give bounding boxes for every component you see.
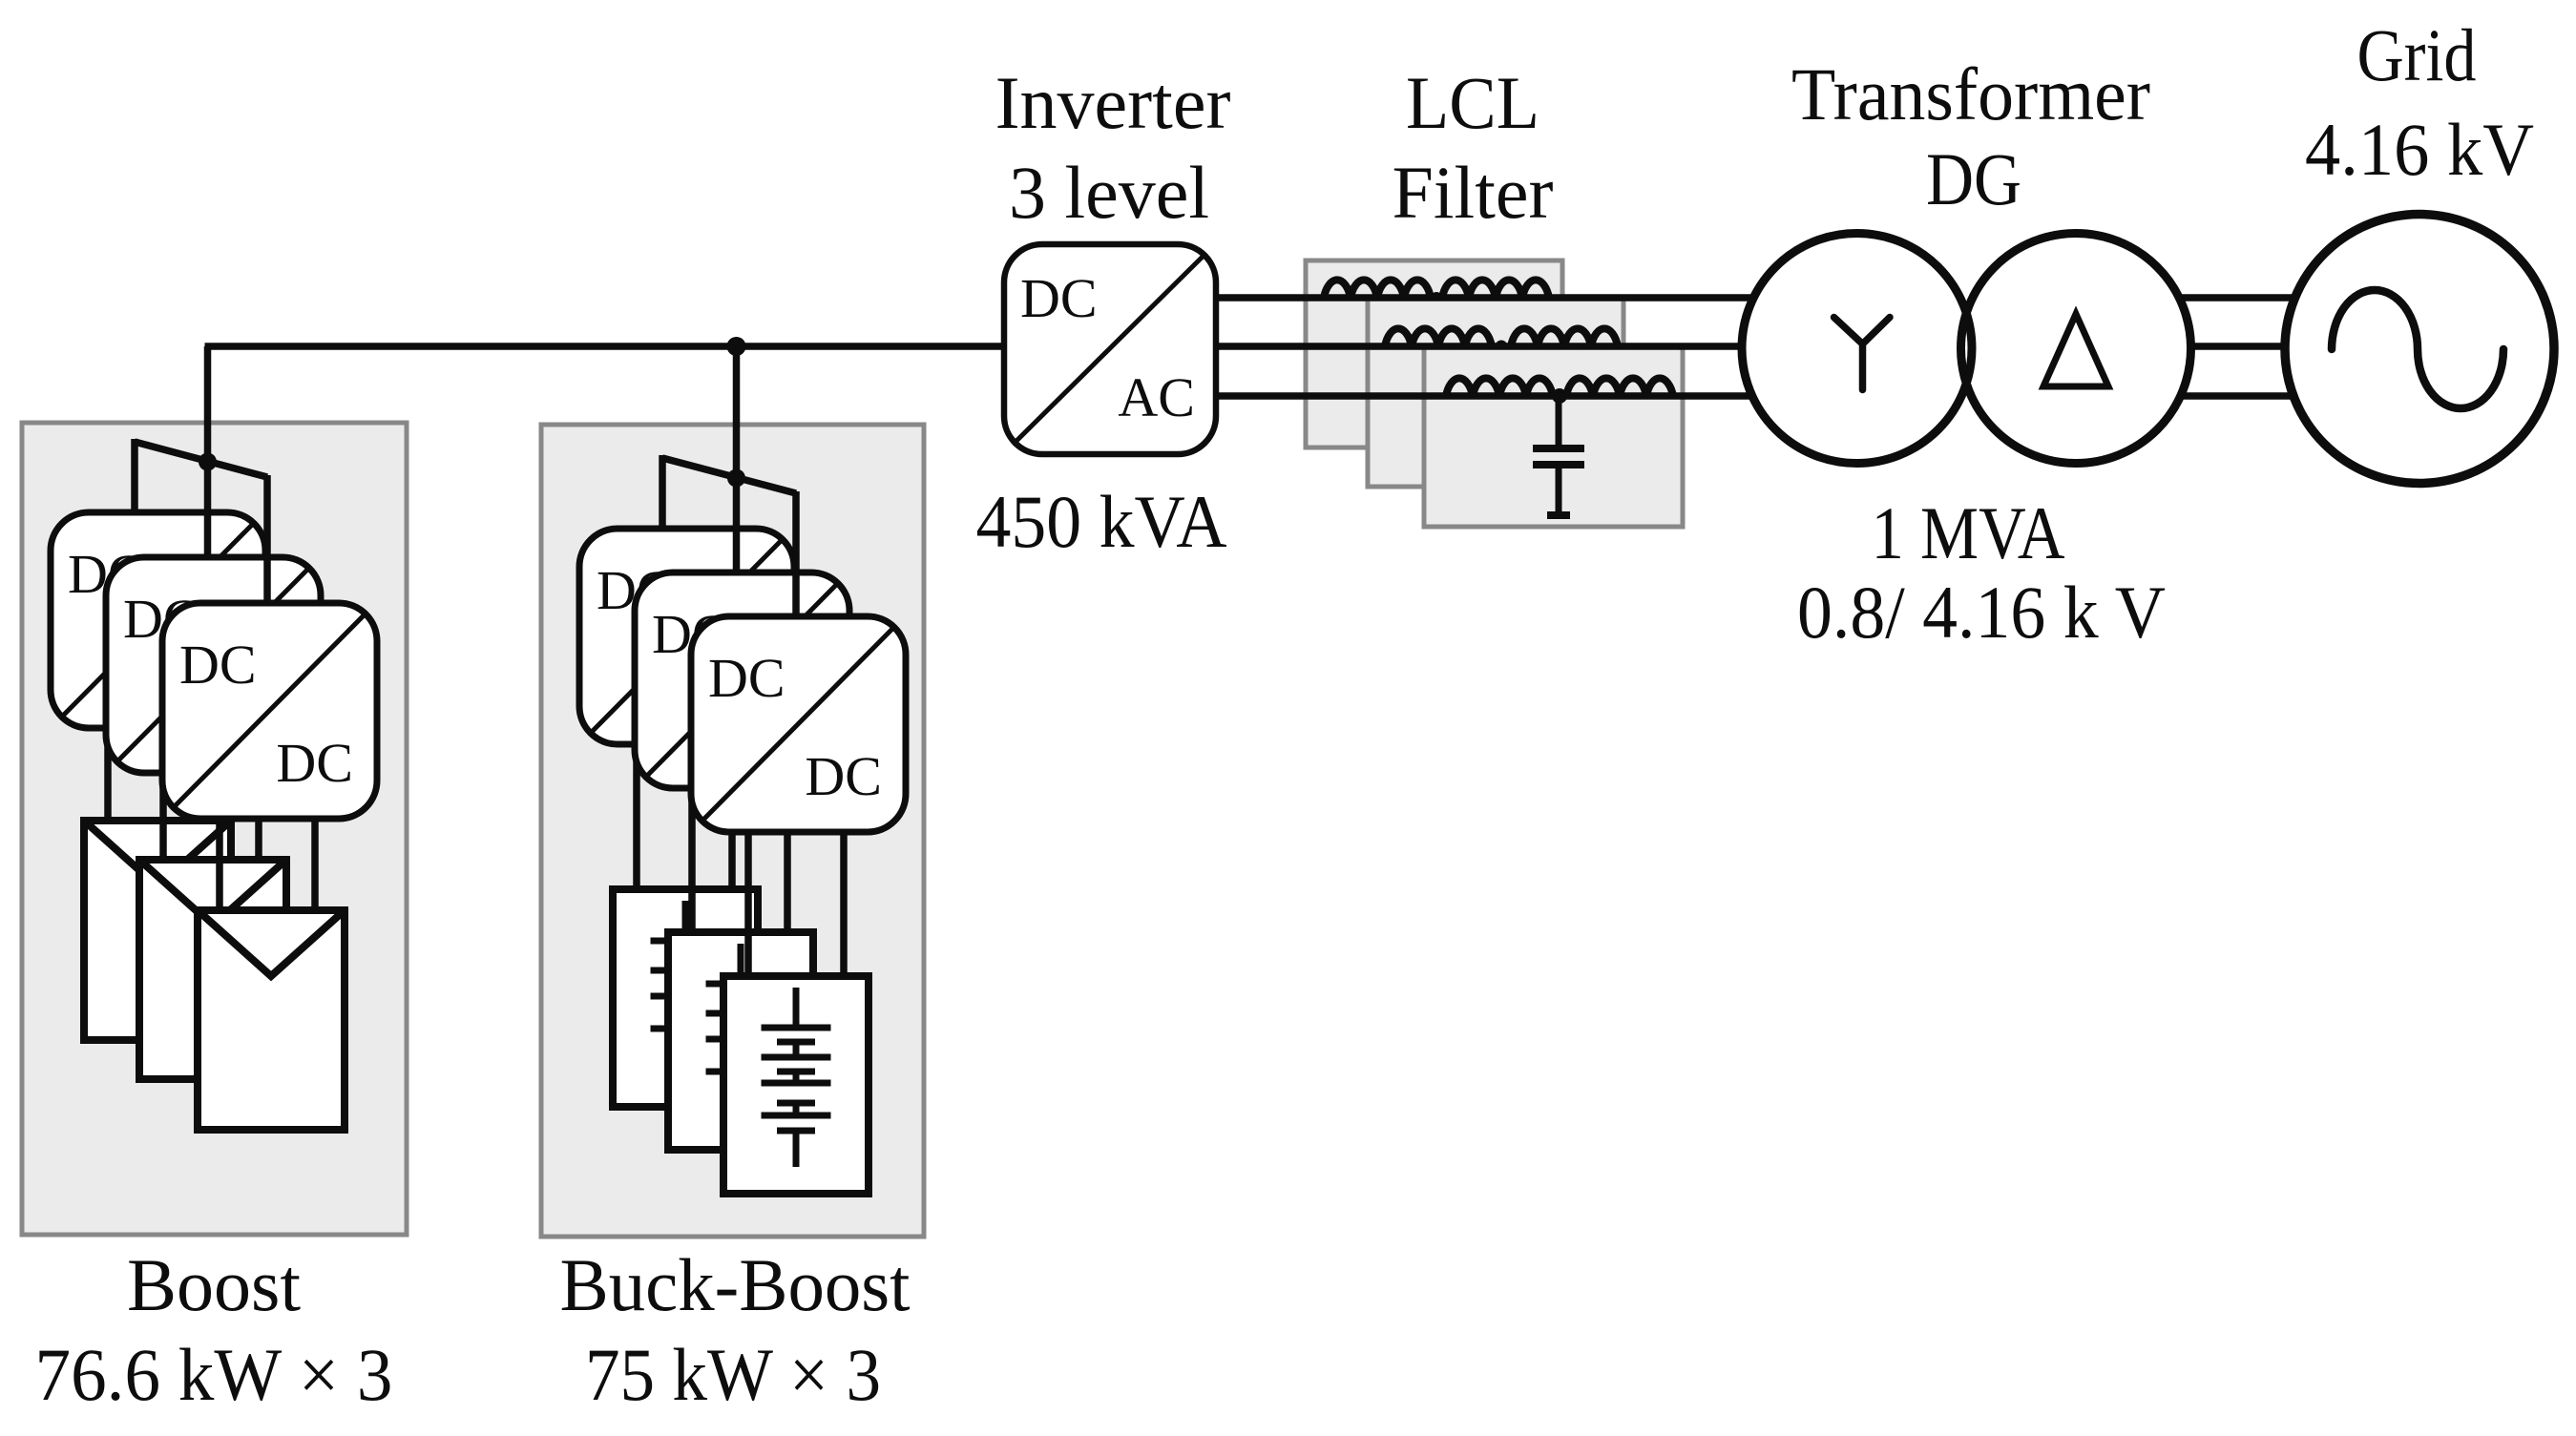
svg-text:DC: DC (708, 647, 785, 709)
svg-text:3 level: 3 level (1009, 151, 1209, 234)
svg-text:DC: DC (276, 732, 353, 794)
svg-text:Grid: Grid (2357, 13, 2477, 96)
svg-text:1 MVA: 1 MVA (1872, 491, 2065, 574)
svg-text:DC: DC (1020, 267, 1098, 329)
svg-text:Filter: Filter (1393, 151, 1554, 234)
svg-text:76.6 kW × 3: 76.6 kW × 3 (35, 1333, 393, 1416)
svg-text:Boost: Boost (127, 1243, 301, 1326)
svg-text:DC: DC (805, 745, 882, 807)
svg-text:75 kW × 3: 75 kW × 3 (585, 1333, 881, 1416)
svg-text:Transformer: Transformer (1791, 52, 2150, 135)
svg-text:AC: AC (1118, 366, 1195, 428)
svg-text:DC: DC (179, 634, 257, 696)
svg-text:Buck-Boost: Buck-Boost (560, 1243, 911, 1326)
svg-text:Inverter: Inverter (995, 61, 1231, 144)
svg-text:4.16 kV: 4.16 kV (2305, 108, 2534, 191)
svg-text:LCL: LCL (1406, 61, 1539, 144)
svg-text:450 kVA: 450 kVA (976, 480, 1227, 563)
svg-text:DG: DG (1926, 137, 2021, 220)
svg-text:0.8/ 4.16 k V: 0.8/ 4.16 k V (1797, 571, 2166, 654)
